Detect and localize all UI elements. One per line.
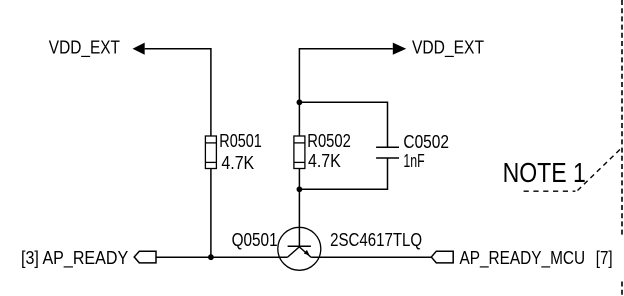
svg-text:[7]: [7] (596, 248, 613, 268)
svg-text:AP_READY_MCU: AP_READY_MCU (460, 248, 586, 269)
transistor Q0501 (278, 227, 321, 270)
wire bottom rail node B to C0502 (299, 158, 387, 189)
note text NOTE 1 (503, 157, 586, 188)
svg-text:4.7K: 4.7K (221, 153, 254, 173)
wire emitter to AP_READY_MCU (311, 256, 431, 258)
wire R0501 bottom to junction (210, 169, 212, 258)
svg-text:Q0501: Q0501 (232, 230, 278, 250)
value 4.7K of R0501 (221, 153, 254, 173)
svg-text:4.7K: 4.7K (308, 151, 341, 171)
power flag VDD_EXT left arrow (133, 43, 145, 55)
junction dot left (208, 254, 214, 260)
resistor R0502 (294, 136, 305, 169)
svg-text:VDD_EXT: VDD_EXT (412, 38, 484, 59)
svg-text:2SC4617TLQ: 2SC4617TLQ (330, 230, 422, 250)
net label AP_READY_MCU (460, 248, 586, 269)
value 1nF of C0502 (403, 151, 424, 171)
dashed note region boundary vertical upper (621, 0, 623, 237)
svg-text:VDD_EXT: VDD_EXT (49, 38, 120, 59)
label C0502 (403, 132, 449, 152)
dashed note region boundary vertical lower (621, 282, 623, 296)
dashed leader line horizontal under NOTE 1 (524, 190, 576, 192)
label R0501 (219, 131, 261, 151)
net label VDD_EXT right (412, 38, 484, 59)
wire VDD_EXT to R0501 top (145, 49, 211, 136)
port connector AP_READY_MCU right (431, 251, 453, 263)
svg-text:1nF: 1nF (403, 151, 424, 171)
part number 2SC4617TLQ (330, 230, 422, 250)
net label VDD_EXT left (49, 38, 120, 59)
power flag VDD_EXT right arrow (393, 43, 406, 55)
label R0502 (307, 131, 351, 151)
resistor R0501 (205, 136, 216, 169)
svg-text:R0501: R0501 (219, 131, 261, 151)
wire node A to R0502 top (298, 102, 300, 136)
node A junction dot top (297, 99, 303, 105)
pin number [7] (596, 248, 613, 268)
svg-text:R0502: R0502 (307, 131, 351, 151)
wire AP_READY to junction to collector (156, 256, 287, 258)
wire R0502 bottom to node B (298, 169, 300, 190)
node B junction dot bottom (297, 186, 303, 192)
value 4.7K of R0502 (308, 151, 341, 171)
wire node B to transistor base (298, 189, 300, 246)
svg-text:C0502: C0502 (403, 132, 449, 152)
wire VDD_EXT right to node A (299, 49, 392, 103)
svg-text:NOTE 1: NOTE 1 (503, 157, 586, 188)
net label [3] AP_READY (21, 248, 128, 269)
capacitor C0502 (376, 147, 399, 158)
port connector AP_READY left (134, 251, 156, 263)
dashed leader line diagonal to note region (578, 147, 623, 191)
svg-text:[3] AP_READY: [3] AP_READY (21, 248, 128, 269)
label Q0501 (232, 230, 278, 250)
wire top rail node A to C0502 (299, 102, 387, 147)
